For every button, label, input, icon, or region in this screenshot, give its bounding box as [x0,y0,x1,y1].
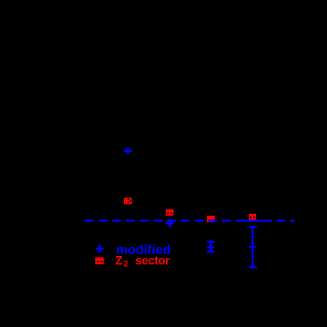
legend blue plus [96,245,104,253]
blue plus P2 with small error bar [165,219,174,228]
blue plus P1 [124,148,132,154]
svg-text:Z: Z [115,254,122,268]
blue errorbar P3 [207,241,215,253]
red square S3 [207,216,215,222]
dashed blue line y=220.6 [85,220,295,222]
svg-text:2: 2 [123,259,128,269]
continuous blue segment at line under S4 [244,220,265,222]
red square S2 [166,209,174,215]
legend red square [95,257,104,264]
blue errorbar P4 [249,226,257,268]
svg-text:sector: sector [135,254,170,268]
red square S4 [249,214,256,221]
red square S1 [124,198,132,204]
